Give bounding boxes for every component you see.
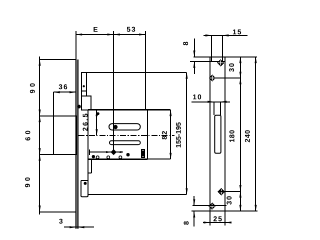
stop block (141, 149, 144, 157)
screw hole D (208, 203, 215, 210)
upper slot (109, 124, 140, 130)
latch housing (82, 96, 92, 110)
centerline (79, 134, 175, 136)
label 30 bottom (227, 196, 232, 204)
hole extension bottom (219, 190, 241, 192)
label 10 (193, 94, 201, 99)
cylinder dot (113, 125, 117, 129)
dim 26.5 (96, 110, 98, 136)
label 30 top (229, 63, 234, 71)
screw holes row (96, 156, 122, 159)
label 15 (233, 29, 241, 34)
strike bottom edge (191, 210, 257, 212)
label 90 bottom (25, 177, 30, 187)
strike bottom fold (193, 205, 227, 207)
hole extension top (216, 77, 241, 79)
label 3 (59, 219, 62, 224)
case upper line (86, 72, 186, 74)
label E (94, 27, 98, 32)
lower slot (110, 141, 141, 145)
dim 180 (239, 78, 241, 191)
dim 30 top (239, 57, 241, 78)
faceplate (76, 60, 78, 229)
label 53 (127, 27, 135, 32)
dim 3 (64, 226, 94, 228)
label 26.5 (83, 114, 88, 131)
dim 155-195 (186, 73, 188, 195)
label 25 (213, 216, 221, 221)
label 8 top (183, 42, 188, 45)
dim 30 bottom (239, 191, 241, 211)
label 155-195 (176, 122, 181, 147)
bottom extension line (40, 211, 76, 213)
label 180 (229, 130, 234, 142)
bottom bracket (81, 159, 92, 197)
strike tab lines (212, 35, 223, 61)
latch bolt (82, 73, 87, 96)
lock case (88, 110, 171, 159)
bottom line to dim (88, 194, 187, 196)
dim 90-60-90 (39, 57, 41, 215)
strike plate body (210, 57, 225, 211)
dim 36 (54, 91, 76, 116)
strike top edge (193, 56, 257, 58)
label 8 bottom (184, 221, 189, 224)
latch pivot (77, 105, 81, 109)
dim E / 53 (76, 31, 146, 151)
deadbolt box (40, 116, 77, 155)
strike slot (215, 115, 221, 153)
dim 8 top (193, 39, 195, 75)
dim 25 (203, 211, 232, 225)
strike top fold (190, 61, 225, 63)
dim 82 (170, 110, 172, 159)
screw hole C (218, 188, 225, 195)
label 36 (59, 84, 67, 89)
dim 15 (204, 34, 248, 36)
cam micro dimension (90, 149, 130, 158)
label 240 (245, 130, 250, 142)
screw hole B (209, 74, 216, 81)
dim 10 (191, 101, 230, 115)
label 82 (162, 131, 167, 139)
case screw (97, 112, 100, 115)
label 90 top (30, 83, 35, 93)
dim 240 (255, 57, 257, 211)
top extension line (40, 59, 76, 61)
dim 8 bottom (193, 196, 195, 227)
label 60 (25, 131, 30, 141)
screw hole A (217, 59, 224, 66)
